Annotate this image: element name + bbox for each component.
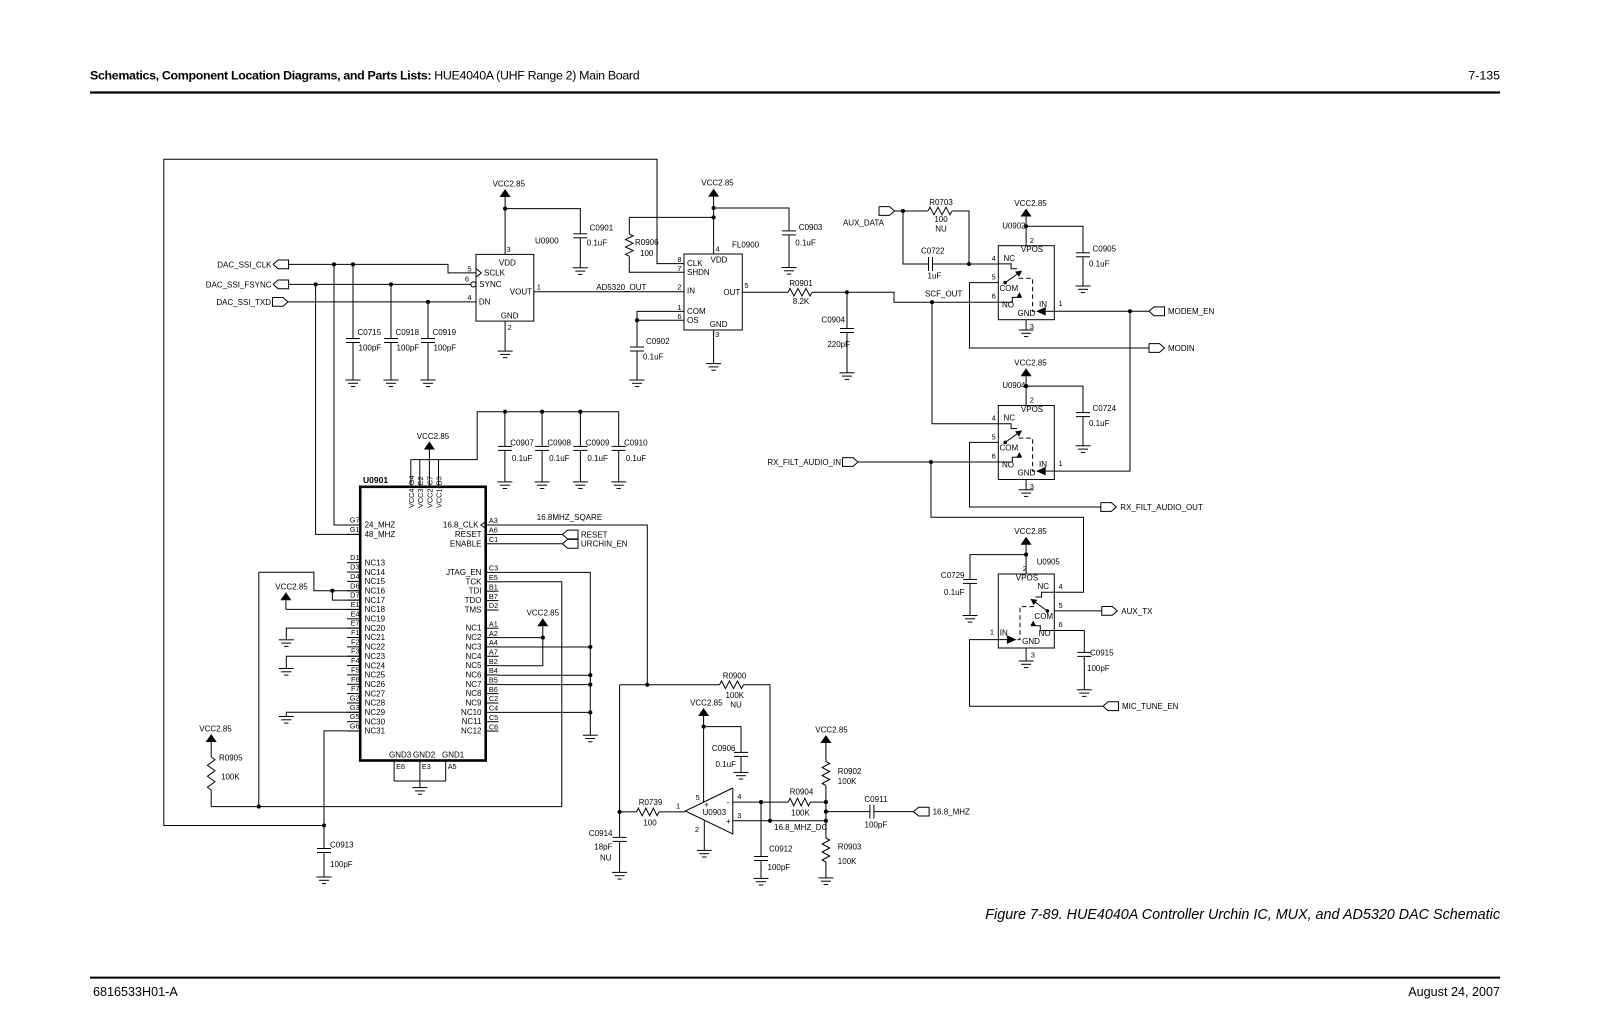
ground — [279, 640, 294, 647]
ground — [754, 878, 769, 885]
node DAC_SSI_TXD junction — [426, 300, 430, 304]
svg-text:6: 6 — [677, 312, 681, 321]
node DAC_SSI_CLK junctions — [332, 262, 355, 266]
wire MODEM_EN — [1054, 310, 1149, 312]
svg-text:0.1uF: 0.1uF — [587, 454, 608, 463]
svg-text:VCC2.85: VCC2.85 — [1014, 527, 1047, 536]
node R0902 junction — [824, 800, 828, 804]
ground — [583, 735, 598, 742]
svg-text:C0918: C0918 — [396, 328, 420, 337]
svg-text:R0904: R0904 — [790, 787, 814, 796]
U0901 pin B4 NC6 — [465, 666, 498, 679]
svg-text:3: 3 — [1031, 651, 1035, 660]
node rail junction — [257, 805, 261, 809]
capacitor C0903 — [782, 223, 823, 268]
svg-text:100K: 100K — [791, 808, 810, 817]
ground — [630, 380, 645, 387]
capacitor C0907 — [498, 438, 534, 482]
svg-text:E7: E7 — [351, 619, 360, 628]
wire R0906 to VDD — [629, 216, 713, 218]
U0901 pin B6 NC8 — [465, 685, 498, 698]
svg-text:R0906: R0906 — [635, 238, 659, 247]
svg-text:TMS: TMS — [465, 606, 482, 615]
U0901 pin A7 NC4 — [465, 647, 498, 660]
svg-text:VCC2.85: VCC2.85 — [690, 698, 723, 707]
svg-text:VCC2.85: VCC2.85 — [701, 178, 734, 187]
port RX_FILT_AUDIO_OUT — [1101, 503, 1203, 512]
svg-text:VCC2.85: VCC2.85 — [527, 609, 560, 618]
svg-text:E4: E4 — [351, 609, 360, 618]
svg-text:MODIN: MODIN — [1168, 344, 1195, 353]
svg-text:SYNC: SYNC — [479, 280, 501, 289]
svg-text:+: + — [704, 800, 709, 809]
svg-text:U0904: U0904 — [1002, 381, 1026, 390]
svg-text:5: 5 — [992, 433, 996, 442]
wire U0902 GND — [1025, 320, 1027, 330]
port MIC_TUNE_EN — [1103, 702, 1179, 711]
wire U0901 VCC tie — [411, 412, 619, 460]
resistor R0900 — [720, 671, 747, 709]
svg-text:NU: NU — [935, 225, 947, 234]
svg-text:E1: E1 — [351, 600, 360, 609]
wire C0904 stem — [846, 292, 848, 328]
wire AD5320_OUT — [534, 283, 684, 292]
wire VDD to C0901 — [505, 209, 580, 234]
svg-text:VCC3: VCC3 — [416, 489, 425, 508]
svg-text:C0906: C0906 — [712, 744, 736, 753]
svg-text:5: 5 — [467, 265, 471, 274]
node DAC_SSI_FSYNC junctions — [314, 282, 394, 286]
wire OS to C0902 — [636, 320, 638, 347]
svg-text:D4: D4 — [350, 572, 359, 581]
svg-text:C6: C6 — [489, 722, 498, 731]
node NC10 junction — [588, 710, 592, 714]
svg-text:RESET: RESET — [581, 530, 608, 539]
svg-text:DAC_SSI_FSYNC: DAC_SSI_FSYNC — [206, 280, 272, 289]
wire C0915 stem — [1054, 631, 1084, 653]
wire to U0902 NC — [969, 263, 998, 265]
ground — [535, 482, 550, 489]
svg-text:RX_FILT_AUDIO_OUT: RX_FILT_AUDIO_OUT — [1120, 503, 1203, 512]
U0901 pin C1 ENABLE — [450, 535, 563, 548]
svg-text:0.1uF: 0.1uF — [643, 353, 664, 362]
U0901 pin F5 NC25 — [347, 665, 386, 679]
U0901 pin F2 NC22 — [347, 637, 386, 651]
capacitor C0715 — [346, 328, 382, 380]
svg-text:5: 5 — [992, 273, 996, 282]
U0901 pin A1 NC1 — [465, 619, 498, 632]
node NC3 junction — [588, 645, 592, 649]
wire NC29 to gnd — [286, 712, 360, 716]
svg-text:VCC2.85: VCC2.85 — [417, 432, 450, 441]
svg-text:0.1uF: 0.1uF — [626, 454, 647, 463]
wire C0908 stem — [541, 412, 543, 447]
svg-text:A6: A6 — [489, 526, 498, 535]
svg-text:100: 100 — [640, 249, 654, 258]
svg-text:7: 7 — [677, 264, 681, 273]
svg-text:3: 3 — [737, 811, 741, 820]
svg-text:VCC2.85: VCC2.85 — [199, 724, 232, 733]
svg-text:IN: IN — [1039, 300, 1047, 309]
U0901 pin C2 NC9 — [465, 694, 498, 707]
svg-text:TDO: TDO — [465, 596, 482, 605]
capacitor C0905 — [1076, 244, 1117, 286]
svg-text:0.1uF: 0.1uF — [795, 238, 816, 247]
power VCC2.85 U0900 — [493, 179, 526, 254]
port MODEM_EN — [1149, 307, 1214, 316]
capacitor C0912 — [754, 802, 793, 878]
svg-text:NC29: NC29 — [365, 708, 386, 717]
svg-text:GND1: GND1 — [442, 751, 465, 760]
svg-text:100pF: 100pF — [434, 344, 457, 353]
svg-text:C0901: C0901 — [590, 223, 614, 232]
svg-text:100K: 100K — [221, 772, 240, 781]
port DAC_SSI_TXD — [216, 298, 288, 307]
svg-text:C0722: C0722 — [921, 246, 945, 255]
ground — [1077, 690, 1092, 697]
svg-text:B5: B5 — [489, 676, 498, 685]
wire NC20 to gnd — [286, 628, 360, 640]
power VCC2.85 U0901 — [417, 432, 450, 460]
svg-text:COM: COM — [687, 307, 706, 316]
wire U0905 GND — [1025, 648, 1027, 661]
svg-text:D7: D7 — [350, 591, 359, 600]
U0901 pin F3 NC23 — [347, 647, 386, 661]
svg-text:OS: OS — [687, 316, 699, 325]
ground — [963, 616, 978, 623]
svg-text:100pF: 100pF — [768, 863, 791, 872]
svg-text:3: 3 — [507, 245, 511, 254]
svg-text:NC5: NC5 — [465, 661, 482, 670]
svg-text:6: 6 — [992, 292, 996, 301]
U0901 pin D3 NC14 — [347, 563, 386, 577]
svg-text:C2: C2 — [489, 694, 498, 703]
svg-text:NC9: NC9 — [465, 699, 482, 708]
power VCC2.85 right — [527, 609, 560, 638]
svg-text:C0905: C0905 — [1093, 244, 1117, 253]
svg-text:D6: D6 — [350, 581, 359, 590]
node C0908 junction — [540, 410, 544, 414]
capacitor C0911 — [864, 795, 888, 830]
svg-text:VPOS: VPOS — [1021, 405, 1043, 414]
svg-text:F4: F4 — [351, 656, 360, 665]
svg-text:5: 5 — [696, 793, 700, 802]
svg-text:NC: NC — [1004, 414, 1016, 423]
U0901 pin D6 NC16 — [347, 581, 386, 595]
svg-text:R0902: R0902 — [838, 767, 862, 776]
svg-text:NC19: NC19 — [365, 615, 386, 624]
svg-text:RESET: RESET — [455, 530, 482, 539]
svg-text:C0910: C0910 — [624, 438, 648, 447]
wire C0919 to DAC_SSI_TXD — [427, 302, 429, 339]
node pin3 junctions — [768, 819, 828, 823]
ground — [706, 364, 721, 371]
node U0903 V+ junction — [702, 725, 706, 729]
svg-text:1uF: 1uF — [928, 271, 942, 280]
svg-text:NC10: NC10 — [461, 708, 482, 717]
svg-text:DN: DN — [479, 298, 491, 307]
svg-text:NC2: NC2 — [465, 633, 482, 642]
U0901 pin G5 NC30 — [347, 712, 386, 726]
svg-text:NC: NC — [1038, 582, 1050, 591]
power VCC2.85 FL0900 — [701, 178, 734, 254]
capacitor C0906 — [712, 744, 748, 773]
svg-text:B7: B7 — [489, 592, 498, 601]
U0901 pin B1 TDI — [469, 582, 499, 595]
svg-text:6816533H01-A: 6816533H01-A — [93, 985, 178, 999]
svg-text:NC20: NC20 — [365, 624, 386, 633]
svg-text:6: 6 — [465, 275, 469, 284]
svg-text:16.8_CLK: 16.8_CLK — [443, 521, 479, 530]
ground — [697, 850, 712, 857]
svg-text:1: 1 — [677, 303, 681, 312]
svg-text:C0909: C0909 — [586, 438, 610, 447]
svg-text:VCC2: VCC2 — [426, 489, 435, 508]
wire NC18 to VCC — [286, 608, 360, 610]
svg-text:B2: B2 — [489, 657, 498, 666]
resistor R0739 — [620, 798, 686, 828]
wire NC23 to gnd — [286, 656, 360, 668]
wire C0909 stem — [579, 412, 581, 447]
ground — [818, 878, 833, 885]
svg-text:R0900: R0900 — [723, 671, 747, 680]
svg-text:100pF: 100pF — [865, 821, 888, 830]
svg-text:G1: G1 — [350, 525, 360, 534]
node MODEM_EN junction — [1128, 309, 1132, 313]
wire DAC_SSI_TXD — [288, 301, 476, 303]
svg-text:16.8_MHZ_DC: 16.8_MHZ_DC — [774, 823, 828, 832]
svg-text:COM: COM — [1034, 612, 1053, 621]
resistor R0703 — [928, 198, 953, 234]
ground — [421, 380, 436, 387]
svg-text:D3: D3 — [350, 563, 359, 572]
svg-text:G3: G3 — [350, 703, 360, 712]
svg-text:A1: A1 — [489, 619, 498, 628]
svg-text:+: + — [726, 817, 731, 826]
wire MODIN — [970, 283, 1150, 348]
U0901 pin A2 NC2 — [465, 629, 498, 642]
node C0911 junction — [824, 810, 828, 814]
ground — [412, 788, 427, 795]
svg-text:AD5320_OUT: AD5320_OUT — [596, 283, 646, 292]
svg-text:VCC4: VCC4 — [407, 489, 416, 508]
U0901 pin D4 NC15 — [347, 572, 386, 586]
power VCC2.85 R0902 — [815, 725, 848, 761]
wire SCF_OUT — [812, 290, 998, 303]
svg-text:6: 6 — [992, 452, 996, 461]
wire NC10 to gnd rail — [499, 711, 591, 713]
node U0905 VPOS — [1024, 553, 1028, 557]
capacitor C0904 — [821, 315, 854, 373]
svg-text:G7: G7 — [350, 516, 360, 525]
svg-text:B4: B4 — [489, 666, 498, 675]
svg-text:NC26: NC26 — [365, 680, 386, 689]
svg-text:1: 1 — [990, 628, 994, 637]
svg-text:C0915: C0915 — [1090, 648, 1114, 657]
node R0739 junction — [618, 810, 622, 814]
svg-text:100pF: 100pF — [330, 860, 353, 869]
svg-text:16.8MHZ_SQARE: 16.8MHZ_SQARE — [537, 513, 602, 522]
svg-text:R0905: R0905 — [219, 754, 243, 763]
node FL0900 OS — [635, 318, 639, 322]
svg-text:7-135: 7-135 — [1468, 69, 1500, 83]
svg-text:GND: GND — [1022, 637, 1040, 646]
svg-text:C0715: C0715 — [358, 328, 382, 337]
svg-text:C0904: C0904 — [821, 315, 845, 324]
power VCC2.85 U0903 — [690, 698, 723, 802]
svg-text:NC12: NC12 — [461, 727, 482, 736]
svg-text:0.1uF: 0.1uF — [549, 454, 570, 463]
svg-text:8.2K: 8.2K — [793, 297, 810, 306]
svg-text:NC15: NC15 — [365, 577, 386, 586]
wire MODEM_EN to U0904 IN — [1054, 311, 1130, 471]
U0901 pin B7 TDO — [465, 592, 499, 605]
U0901 pin E5 TCK — [466, 573, 499, 586]
wire RX_FILT_AUDIO_IN — [858, 461, 998, 463]
ground — [573, 482, 588, 489]
wire C0715 to DAC_SSI_CLK — [352, 264, 354, 338]
ground — [611, 482, 626, 489]
node AUX_DATA junction — [901, 209, 905, 213]
ground — [734, 772, 749, 779]
svg-text:NC18: NC18 — [365, 605, 386, 614]
svg-text:48_MHZ: 48_MHZ — [365, 530, 396, 539]
svg-text:4: 4 — [992, 414, 996, 423]
svg-text:2: 2 — [677, 283, 681, 292]
svg-text:JTAG_EN: JTAG_EN — [446, 568, 482, 577]
svg-text:R0903: R0903 — [838, 842, 862, 851]
wire U0903 pin2 gnd — [703, 820, 705, 850]
wire VPOS to C0724 — [1026, 386, 1083, 413]
figure caption — [985, 907, 1501, 923]
svg-text:VCC2.85: VCC2.85 — [275, 583, 308, 592]
U0901 pin C4 NC10 — [461, 704, 498, 717]
svg-text:NC: NC — [1004, 254, 1016, 263]
svg-text:NC22: NC22 — [365, 643, 386, 652]
wire R0900 row — [620, 684, 720, 686]
wire 16.8_MHZ — [874, 811, 914, 813]
port AUX_TX — [1102, 607, 1153, 616]
svg-text:VOUT: VOUT — [510, 288, 532, 297]
resistor R0904 — [788, 787, 826, 817]
svg-text:-: - — [727, 798, 730, 807]
ic U0901 body — [360, 475, 486, 761]
wire NC31/FL0900-CLK loop — [164, 159, 684, 825]
wire FL0900 GND — [713, 330, 715, 364]
ground — [498, 351, 513, 358]
svg-text:G4: G4 — [407, 475, 416, 485]
node C0913 junction — [322, 823, 326, 827]
svg-text:NC3: NC3 — [465, 642, 482, 651]
wire NC6 to gnd rail — [499, 674, 591, 676]
wire R0900 right to pin3 — [744, 685, 771, 821]
svg-text:GND: GND — [710, 320, 728, 329]
svg-text:C0902: C0902 — [646, 337, 670, 346]
svg-text:URCHIN_EN: URCHIN_EN — [581, 540, 628, 549]
wire RX_FILT_AUDIO_IN to U0905 NC — [931, 462, 1084, 592]
svg-text:C0911: C0911 — [864, 795, 888, 804]
wire U0900 GND — [504, 321, 506, 351]
svg-text:E3: E3 — [422, 762, 431, 771]
ground — [279, 717, 294, 724]
ic FL0900 — [677, 241, 759, 340]
wire RX_FILT_AUDIO_OUT — [970, 442, 1101, 507]
U0901 pin F4 NC24 — [347, 656, 386, 670]
svg-text:G6: G6 — [350, 722, 360, 731]
node U0904 VPOS — [1024, 384, 1028, 388]
svg-text:C5: C5 — [489, 713, 498, 722]
U0901 pin B2 NC5 — [465, 657, 498, 670]
svg-text:VDD: VDD — [499, 259, 516, 268]
node NC16 junction — [330, 589, 334, 593]
svg-text:A5: A5 — [448, 762, 457, 771]
wire AUX_DATA — [895, 210, 929, 212]
svg-text:NC24: NC24 — [365, 661, 386, 670]
svg-text:C0919: C0919 — [433, 328, 457, 337]
wire FL0900 COM-OS — [637, 311, 684, 320]
node RX_FILT_AUDIO_IN junction — [929, 460, 933, 464]
svg-text:VPOS: VPOS — [1021, 245, 1043, 254]
capacitor C0910 — [612, 438, 648, 482]
svg-text:R0739: R0739 — [639, 798, 663, 807]
svg-text:4: 4 — [737, 792, 741, 801]
svg-text:D2: D2 — [489, 601, 498, 610]
port AUX_DATA — [843, 207, 895, 228]
U0901 pin C6 NC12 — [461, 722, 498, 735]
svg-text:E6: E6 — [396, 762, 405, 771]
svg-text:G2: G2 — [350, 693, 360, 702]
svg-text:A4: A4 — [489, 638, 498, 647]
U0901 pin G6 NC31 — [347, 722, 386, 736]
svg-text:0.1uF: 0.1uF — [587, 238, 608, 247]
svg-text:6: 6 — [1059, 620, 1063, 629]
ground — [782, 268, 797, 275]
node U0900 VDD — [503, 207, 507, 211]
svg-text:MIC_TUNE_EN: MIC_TUNE_EN — [1122, 702, 1179, 711]
port DAC_SSI_CLK — [217, 260, 288, 269]
resistor R0902 — [822, 762, 862, 803]
svg-text:B3: B3 — [435, 476, 444, 485]
resistor R0903 — [822, 838, 862, 878]
svg-text:C0729: C0729 — [941, 571, 965, 580]
svg-text:COM: COM — [1000, 284, 1019, 293]
svg-text:F3: F3 — [351, 647, 360, 656]
capacitor C0913 — [317, 840, 354, 877]
power VCC2.85 U0902 — [1014, 199, 1047, 246]
wire V+ to C0906 — [704, 727, 741, 753]
svg-text:AUX_TX: AUX_TX — [1121, 607, 1153, 616]
svg-text:1: 1 — [537, 282, 541, 291]
U0901 pin G3 NC29 — [347, 703, 386, 717]
U0901 GND pins — [389, 751, 465, 788]
wire R0905 rail — [211, 806, 562, 808]
svg-text:Figure 7-89. HUE4040A Controll: Figure 7-89. HUE4040A Controller Urchin … — [985, 907, 1501, 923]
svg-text:18pF: 18pF — [594, 842, 612, 851]
svg-text:NC23: NC23 — [365, 652, 386, 661]
ground — [346, 380, 361, 387]
svg-text:0.1uF: 0.1uF — [1089, 259, 1110, 268]
svg-text:R0703: R0703 — [929, 198, 953, 207]
svg-text:NC16: NC16 — [365, 586, 386, 595]
svg-text:C0914: C0914 — [589, 829, 613, 838]
capacitor C0919 — [421, 328, 457, 380]
svg-text:GND: GND — [501, 311, 519, 320]
svg-text:AUX_DATA: AUX_DATA — [843, 219, 885, 228]
svg-text:NC27: NC27 — [365, 689, 386, 698]
svg-text:100pF: 100pF — [397, 344, 420, 353]
svg-text:U0900: U0900 — [535, 237, 559, 246]
U0901 pin D7 NC17 — [347, 591, 386, 605]
